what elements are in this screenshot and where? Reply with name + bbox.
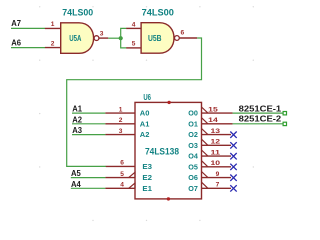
wire A5 to U6 pin 5 [71, 177, 106, 179]
svg-text:O6: O6 [188, 173, 198, 182]
svg-text:12: 12 [211, 139, 221, 146]
global label square 8251CE-1 [283, 112, 286, 115]
svg-text:E1: E1 [142, 184, 152, 193]
svg-text:A0: A0 [140, 109, 150, 118]
svg-text:74LS138: 74LS138 [145, 147, 179, 157]
svg-text:3: 3 [100, 30, 104, 37]
U5B pin 6 [179, 37, 197, 39]
svg-text:A1: A1 [72, 105, 82, 114]
svg-text:O5: O5 [188, 162, 198, 171]
U6 pin 14 O1 (inverted output) [202, 123, 233, 125]
U6 pin 3 A2 [105, 134, 135, 136]
wire O1 to label 8251CE-2 [233, 123, 284, 125]
svg-text:A4: A4 [71, 180, 81, 189]
no-connect pin 11 [230, 153, 236, 159]
svg-text:A5: A5 [71, 169, 81, 178]
U5A pin 1 [45, 27, 61, 29]
U6 hidden power pin dot bottom [167, 197, 170, 200]
svg-text:E3: E3 [142, 162, 152, 171]
U5A pin 2 [45, 47, 61, 49]
wire U5B.6 to U6.E3 [67, 38, 202, 166]
svg-text:13: 13 [211, 128, 221, 135]
svg-text:10: 10 [211, 160, 221, 167]
wire A4 to U6 pin 4 [71, 187, 106, 189]
svg-text:9: 9 [216, 171, 220, 178]
junction [119, 36, 123, 40]
U6 pin 5 E2 (active low) [105, 177, 135, 179]
wire A1 to U6 pin 1 [72, 112, 105, 114]
no-connect pin 13 [230, 132, 236, 138]
svg-text:A3: A3 [72, 126, 82, 135]
svg-text:1: 1 [51, 21, 55, 28]
svg-text:7: 7 [216, 182, 220, 189]
U6 pin 1 A0 [105, 112, 135, 114]
U5B output bubble [175, 36, 180, 41]
U5A pin 3 [99, 37, 108, 39]
svg-text:6: 6 [120, 160, 124, 167]
wire junction up to U5B pin4 [121, 28, 127, 38]
svg-text:A2: A2 [140, 130, 150, 139]
svg-text:A2: A2 [72, 115, 82, 124]
wire A2 to U6 pin 2 [72, 123, 105, 125]
svg-text:6: 6 [181, 30, 185, 37]
wire A6 to U5A pin 2 [11, 47, 45, 49]
global label square 8251CE-2 [283, 122, 286, 125]
U6 pin 6 E3 [106, 165, 135, 167]
U5B pin 5 [126, 47, 141, 49]
svg-text:U5B: U5B [148, 34, 162, 43]
svg-text:O2: O2 [188, 130, 198, 139]
svg-text:U5A: U5A [69, 34, 81, 43]
U6 pin 2 A1 [105, 123, 135, 125]
svg-text:3: 3 [119, 128, 123, 135]
U6 pin 4 E1 (active low) [105, 187, 135, 189]
U5B pin 4 [126, 27, 141, 29]
svg-text:1: 1 [119, 106, 123, 113]
svg-text:2: 2 [51, 40, 55, 47]
svg-text:E2: E2 [142, 173, 152, 182]
svg-text:74LS00: 74LS00 [62, 8, 93, 18]
svg-text:14: 14 [208, 117, 218, 124]
svg-text:4: 4 [120, 182, 124, 189]
svg-text:A6: A6 [11, 39, 21, 48]
wire U5A.3 to junction [108, 37, 120, 39]
U6 pin 7 O7 (inverted output) [202, 187, 232, 189]
U6 pin 12 O3 (inverted output) [202, 144, 232, 146]
svg-text:8251CE-1: 8251CE-1 [239, 105, 282, 114]
svg-text:O4: O4 [188, 152, 198, 161]
svg-text:U6: U6 [143, 93, 151, 102]
wire A3 to U6 pin 3 [72, 134, 105, 136]
U6 pin 10 O5 (inverted output) [202, 166, 232, 168]
wire junction down to U5B pin5 [121, 38, 127, 48]
wire O0 to label 8251CE-1 [233, 112, 284, 114]
svg-text:5: 5 [132, 41, 136, 48]
U6 pin 11 O4 (inverted output) [202, 155, 232, 157]
U5A output bubble [94, 36, 99, 41]
U6 hidden power pin dot top [167, 101, 170, 104]
ic U6 body [135, 102, 202, 198]
U6 pin 15 O0 (inverted output) [202, 112, 233, 114]
grid dots [39, 6, 254, 221]
svg-text:4: 4 [132, 21, 136, 28]
svg-text:A1: A1 [140, 119, 150, 128]
nand gate U5B body [141, 23, 174, 54]
svg-text:A7: A7 [11, 19, 21, 28]
svg-text:74LS00: 74LS00 [142, 8, 174, 18]
svg-text:15: 15 [208, 106, 218, 113]
svg-text:5: 5 [120, 171, 124, 178]
svg-text:2: 2 [119, 117, 123, 124]
svg-text:11: 11 [211, 149, 221, 156]
U6 pin 9 O6 (inverted output) [202, 177, 232, 179]
svg-text:O7: O7 [188, 184, 198, 193]
nand gate U5A body [61, 23, 94, 54]
no-connect pin 10 [230, 164, 236, 170]
U6 pin 13 O2 (inverted output) [202, 134, 232, 136]
svg-text:O0: O0 [188, 109, 198, 118]
svg-text:8251CE-2: 8251CE-2 [239, 115, 282, 124]
wire A7 to U5A pin 1 [11, 27, 45, 29]
no-connect pin 7 [230, 185, 236, 191]
no-connect pin 12 [230, 142, 236, 148]
no-connect pin 9 [230, 175, 236, 181]
svg-text:O1: O1 [188, 119, 198, 128]
svg-text:O3: O3 [188, 141, 198, 150]
